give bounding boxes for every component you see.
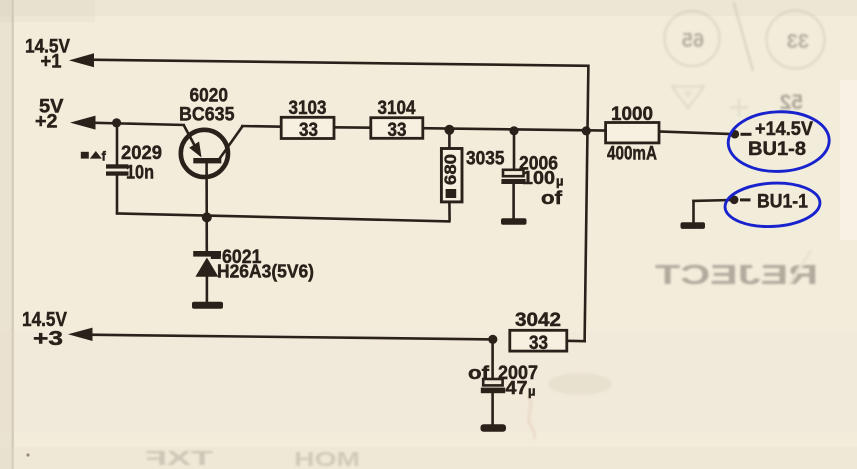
wire: R3104 to node/R1000 <box>422 128 607 130</box>
label 3035 <box>466 149 505 170</box>
label of (C2007) <box>468 362 490 383</box>
svg-text:of: of <box>468 362 490 383</box>
label of (C2006) <box>541 187 563 208</box>
label 3103 <box>289 98 327 119</box>
svg-text:REJECT: REJECT <box>655 259 818 290</box>
wire: C2006 bottom lead <box>512 184 515 222</box>
label 1000 <box>611 104 653 125</box>
wire: base net rail <box>116 213 451 221</box>
wire: R3103 to R3104 <box>333 126 372 129</box>
label 400mA <box>607 144 657 165</box>
resistor R3104 <box>371 118 423 142</box>
wire: BU1-1 stub <box>740 198 751 201</box>
resistor R1000 fuse <box>606 123 659 143</box>
label 14.5V (+3) <box>22 308 67 331</box>
capacitor C2007 electrolytic <box>481 379 505 393</box>
wire: R1000 to BU1-8 <box>658 131 732 134</box>
node: junction R3035 tap <box>444 125 454 135</box>
wire: R3035 bottom lead <box>448 202 451 222</box>
wire: C2029 bottom lead <box>116 175 119 214</box>
wire: C2007 top lead <box>491 340 494 380</box>
svg-text:2029: 2029 <box>121 143 162 164</box>
ground below C2007 <box>481 424 507 432</box>
highlight ellipse BU1-1 <box>724 181 821 229</box>
wire: BU1-8 stub <box>741 133 752 136</box>
svg-text:33: 33 <box>529 333 548 354</box>
bleed-through stamp text right <box>787 31 809 53</box>
label BU1-8 <box>748 139 806 160</box>
bleed-through 52 mark (mirrored) <box>780 91 803 114</box>
svg-text:BU1-8: BU1-8 <box>748 139 806 160</box>
wire: BU1-1 ground drop <box>692 200 695 224</box>
label 2007 <box>498 363 538 384</box>
arrow head +3 <box>68 328 93 341</box>
svg-text:+14.5V: +14.5V <box>755 119 813 140</box>
node: BU1-1 terminal dot <box>730 196 739 205</box>
bleed-through circle stamp left (mirrored) <box>665 11 720 66</box>
bleed-through plus mark <box>730 99 748 116</box>
node: junction C2007 tap <box>488 335 497 344</box>
transistor Q 6020 BC635 <box>181 130 228 177</box>
bleed-through slash <box>734 2 754 71</box>
label 3042 <box>515 310 561 331</box>
wire: +3 output run <box>88 335 494 340</box>
node: junction right bus / main <box>582 126 591 135</box>
wire: BU1-1 to ground horizontal <box>692 199 732 202</box>
node: junction C2029 tap <box>112 118 121 127</box>
bleed-through gray smudge <box>548 373 612 395</box>
wire: C2007 bottom lead <box>491 393 494 427</box>
label 6020 <box>190 86 229 107</box>
wire: right vertical bus <box>585 65 589 342</box>
svg-text:400mA: 400mA <box>607 144 657 165</box>
svg-text:10n: 10n <box>126 163 154 184</box>
label 6021 <box>222 247 262 268</box>
bleed-through circle stamp right (mirrored) <box>767 11 825 69</box>
wire: +1 rail top <box>88 60 590 66</box>
arrow head +1 <box>69 53 94 67</box>
bleed-through REJECT (mirrored) <box>655 251 818 290</box>
ground at BU1-1 <box>681 222 706 229</box>
label 5V (+2) <box>39 96 64 117</box>
svg-text:+1: +1 <box>41 52 62 73</box>
svg-text:3035: 3035 <box>466 149 505 170</box>
svg-text:3042: 3042 <box>515 310 561 331</box>
ground below C2006 <box>501 218 527 225</box>
bleed-through bottom word 2 (mirrored) <box>294 449 360 469</box>
label 47u <box>506 377 536 399</box>
node: junction C2006 tap <box>509 126 518 135</box>
svg-text:3104: 3104 <box>378 98 416 119</box>
label +1 <box>41 52 62 73</box>
wire: R3035 top lead <box>448 130 451 149</box>
svg-text:BC635: BC635 <box>179 105 235 126</box>
svg-text:65: 65 <box>682 30 704 52</box>
label 2029 <box>121 143 162 164</box>
bleed-through pink squiggle <box>528 397 535 439</box>
bleed-through triangle mark <box>672 87 704 109</box>
svg-text:47: 47 <box>506 377 528 398</box>
wire: emitter diagonal <box>184 126 196 148</box>
ground below 6021 <box>192 302 223 309</box>
svg-text:1000: 1000 <box>611 104 653 125</box>
label 2006 <box>519 154 558 175</box>
svg-text:680: 680 <box>442 154 460 185</box>
wire: zener anode to ground <box>206 276 209 305</box>
svg-text:3103: 3103 <box>289 98 327 119</box>
capacitor C2006 electrolytic <box>501 170 525 184</box>
capacitor C2029 <box>106 164 129 175</box>
wire: +2 output to emitter <box>90 123 185 125</box>
node: BU1-8 terminal dot <box>731 130 740 139</box>
label BC635 <box>179 105 235 126</box>
label +14.5V (BU1-8) <box>755 119 813 140</box>
highlight ellipse BU1-8 <box>727 110 830 173</box>
label H26A3(5V6) <box>217 262 314 282</box>
svg-text:TXF: TXF <box>145 448 213 469</box>
label +3 <box>33 327 63 350</box>
svg-text:BU1-1: BU1-1 <box>757 192 808 213</box>
label BU1-1 <box>757 192 808 213</box>
svg-text:H26A3(5V6): H26A3(5V6) <box>217 262 314 282</box>
wire: R3042 to right bus <box>566 339 586 342</box>
resistor R3035 vertical <box>441 149 462 202</box>
svg-text:33: 33 <box>299 120 318 141</box>
svg-text:+2: +2 <box>35 112 58 133</box>
wire: C2029 top lead <box>116 124 119 165</box>
node: junction base rail <box>202 212 212 222</box>
label +2 <box>35 112 58 133</box>
svg-text:6020: 6020 <box>190 86 229 107</box>
svg-text:100: 100 <box>522 167 555 188</box>
label 14.5V (+1) <box>25 36 70 57</box>
svg-text:33: 33 <box>388 120 407 141</box>
svg-text:µ: µ <box>528 384 536 399</box>
zener diode 6021 <box>193 251 221 277</box>
svg-text:33: 33 <box>787 31 809 53</box>
wire: C2006 top lead <box>513 131 516 170</box>
arrow head +2 <box>70 116 96 130</box>
svg-text:+3: +3 <box>33 327 63 350</box>
wire: collector diagonal <box>220 126 243 159</box>
svg-text:of: of <box>541 187 563 208</box>
label 10n <box>126 163 154 184</box>
label 3104 <box>378 98 416 119</box>
label 100u <box>522 167 564 188</box>
bleed-through stamp text left <box>682 30 704 52</box>
marker square-triangle-f <box>81 149 107 164</box>
bleed-through bottom word 1 (mirrored) <box>145 448 213 469</box>
wire: collector to R3103 <box>241 125 282 128</box>
resistor R3103 <box>281 117 334 141</box>
resistor R3042 <box>510 330 567 354</box>
wire: base lead down to zener <box>205 163 208 252</box>
svg-text:f: f <box>102 149 107 164</box>
svg-text:MOH: MOH <box>294 449 360 469</box>
